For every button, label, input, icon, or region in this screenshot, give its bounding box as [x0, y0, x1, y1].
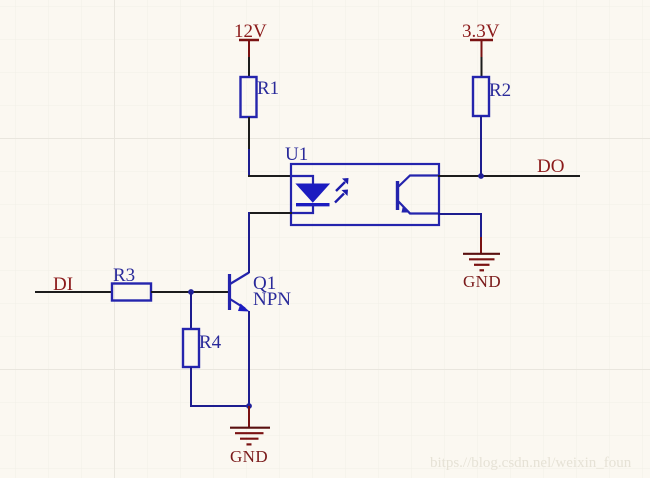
- power port 12V: [234, 21, 267, 58]
- resistor R1: [241, 77, 280, 117]
- svg-text:GND: GND: [230, 447, 268, 466]
- ground right: [463, 237, 501, 291]
- U1 light arrow upper: [336, 178, 349, 191]
- wire U1 emitter pin to GND: [438, 213, 482, 238]
- svg-text:NPN: NPN: [253, 289, 291, 310]
- op-amp U1 optocoupler box: [285, 144, 439, 225]
- U1 LED anode connector: [291, 176, 313, 185]
- svg-text:DO: DO: [537, 156, 564, 177]
- svg-text:bitps.//blog.csdn.nel/weixin_f: bitps.//blog.csdn.nel/weixin_foun: [430, 455, 632, 471]
- wire R2 to node DO: [480, 116, 482, 177]
- wire U1 collector pin to node DO: [438, 175, 482, 177]
- U1 phototransistor: [398, 176, 439, 214]
- wire 12V to R1: [248, 57, 250, 78]
- svg-text:GND: GND: [463, 272, 501, 291]
- wire U1 cathode pin to Q1 collector: [248, 212, 292, 273]
- wire R3 to Q1 base: [151, 291, 229, 293]
- wire Q1 emitter to GND node: [248, 311, 250, 407]
- node DO junction: [478, 173, 484, 179]
- svg-text:R1: R1: [257, 78, 279, 99]
- node base junction: [188, 289, 194, 295]
- wire DI to R3: [35, 291, 113, 293]
- U1 LED cathode connector: [291, 205, 313, 213]
- ground bottom: [230, 406, 270, 466]
- node GND junction: [246, 403, 252, 409]
- resistor R4: [183, 329, 222, 367]
- svg-text:U1: U1: [285, 144, 308, 165]
- resistor R2: [473, 77, 511, 116]
- wire node DO to DO label: [481, 175, 580, 177]
- power port 3.3V: [462, 21, 500, 58]
- wire 3.3V to R2: [481, 57, 483, 78]
- U1 light arrow lower: [335, 190, 348, 203]
- svg-text:R4: R4: [199, 332, 222, 353]
- wire R1 to U1 anode pin: [248, 117, 292, 177]
- U1 LED diode: [296, 184, 330, 205]
- transistor Q1: [230, 273, 292, 312]
- resistor R3: [112, 265, 151, 301]
- wire base node to R4: [190, 292, 192, 330]
- wire R4 to emitter node: [190, 367, 249, 407]
- svg-text:R2: R2: [489, 80, 511, 101]
